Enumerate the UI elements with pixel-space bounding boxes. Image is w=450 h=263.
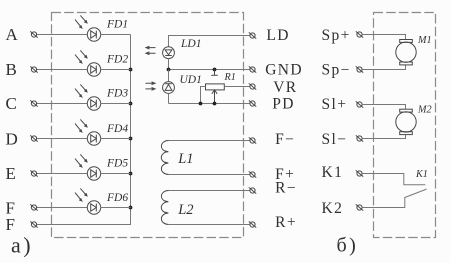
svg-text:R+: R+ [275,214,297,231]
svg-text:L2: L2 [177,202,193,218]
svg-text:FD2: FD2 [106,53,128,65]
svg-text:F: F [6,215,15,234]
svg-text:Sp+: Sp+ [322,27,351,44]
svg-text:K1: K1 [322,164,344,181]
svg-text:FD4: FD4 [106,123,128,135]
svg-text:R−: R− [275,180,297,197]
svg-text:L1: L1 [177,151,193,167]
svg-text:UD1: UD1 [180,74,202,86]
svg-text:E: E [6,164,16,183]
svg-text:Sp−: Sp− [322,62,351,79]
svg-text:FD5: FD5 [106,158,128,170]
svg-text:K2: K2 [322,200,344,217]
svg-text:M2: M2 [417,105,432,116]
svg-text:LD: LD [266,27,289,44]
svg-text:б): б) [337,235,359,257]
svg-text:Sl−: Sl− [322,131,348,148]
svg-text:a): a) [11,233,33,258]
svg-text:A: A [6,25,19,44]
svg-text:Sl+: Sl+ [322,96,348,113]
svg-text:B: B [6,60,17,79]
svg-text:LD1: LD1 [180,38,201,50]
svg-text:GND: GND [265,62,303,79]
svg-text:C: C [6,94,17,113]
svg-text:FD6: FD6 [106,192,128,204]
svg-text:F−: F− [275,131,295,148]
svg-text:R1: R1 [224,72,236,83]
svg-text:M1: M1 [417,35,432,46]
svg-text:FD1: FD1 [106,19,128,31]
svg-text:VR: VR [273,79,297,96]
svg-text:K1: K1 [415,169,428,180]
svg-text:D: D [6,129,18,148]
svg-text:PD: PD [272,96,295,113]
svg-text:FD3: FD3 [106,88,128,100]
